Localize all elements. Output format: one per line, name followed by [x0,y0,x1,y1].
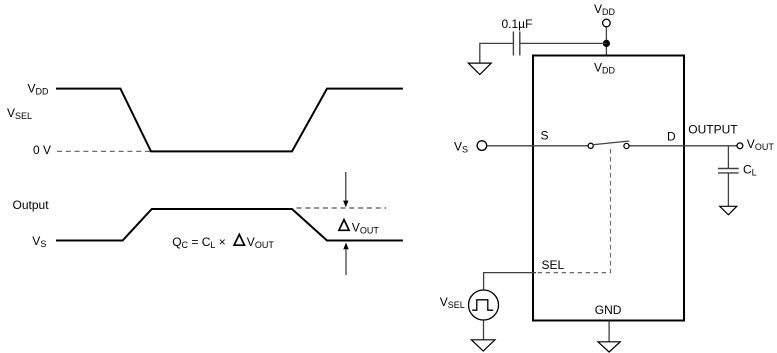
arrow up to dV_OUT [343,243,348,276]
terminal V_DD circle [603,19,611,27]
dashed switch control line [536,149,611,273]
svg-text:SEL: SEL [542,258,565,272]
switch lever [594,141,630,145]
terminal V_OUT circle [737,143,743,149]
source V_SEL circle [469,290,499,320]
wire D to V_OUT terminal [630,145,737,147]
capacitor C_L plates [718,169,739,173]
label V_OUT [747,137,775,152]
dashed 0V level line [57,150,150,152]
dashed Output high reference line [297,207,387,209]
pin label GND [595,303,622,317]
label V_DD supply [594,2,616,17]
pin label V_DD (inside IC) [594,61,616,76]
svg-text:0 V: 0 V [33,143,51,157]
label V_DD (timing) [28,82,50,97]
label V_S source [454,140,468,155]
pin label S [541,129,549,143]
label Output [13,198,50,212]
capacitor 0.1uF plates [513,32,519,56]
svg-text:QC = CL ×: QC = CL × [172,235,226,250]
svg-text:0.1µF: 0.1µF [502,17,533,31]
equation Q_C = C_L x delta V_OUT [172,234,274,249]
ground (IC GND) [598,342,620,352]
wire V_S to switch pole S [487,145,588,147]
wire V_SEL to ground [483,321,485,340]
wire V_SEL source to SEL pin [484,273,536,290]
wire OUTPUT to load cap [727,146,729,168]
label V_S (timing) [32,234,46,249]
switch pole S contact [588,143,593,148]
wire cap left to ground [480,43,514,63]
label V_SEL (timing) [7,106,32,121]
label delta V_OUT [339,220,379,236]
svg-text:GND: GND [595,303,622,317]
wire C_L to ground [727,173,729,206]
svg-text:D: D [667,130,676,144]
pulse symbol [472,300,493,310]
terminal V_S circle [477,141,487,151]
svg-text:OUTPUT: OUTPUT [688,123,738,137]
svg-text:S: S [541,129,549,143]
label 0.1uF [502,17,533,31]
wire decoupling cap to junction [520,42,607,44]
arrow down to dV_OUT [343,172,348,207]
pin label SEL [542,258,565,272]
pin label D [667,130,676,144]
IC body [533,56,684,321]
waveform V_SEL trace [56,89,403,152]
wire GND pin to ground [608,321,610,342]
label 0 V [33,143,51,157]
junction dot [603,40,610,47]
ground (load cap) [720,206,737,215]
ground (decoupling cap) [468,63,491,74]
label V_SEL source [440,295,465,310]
waveform Output trace [56,209,403,241]
svg-text:Output: Output [13,198,50,212]
label OUTPUT [688,123,738,137]
label C_L [743,162,757,177]
switch throw D contact [624,143,629,148]
ground (V_SEL) [471,340,495,351]
wire V_DD terminal to IC top [605,27,607,55]
